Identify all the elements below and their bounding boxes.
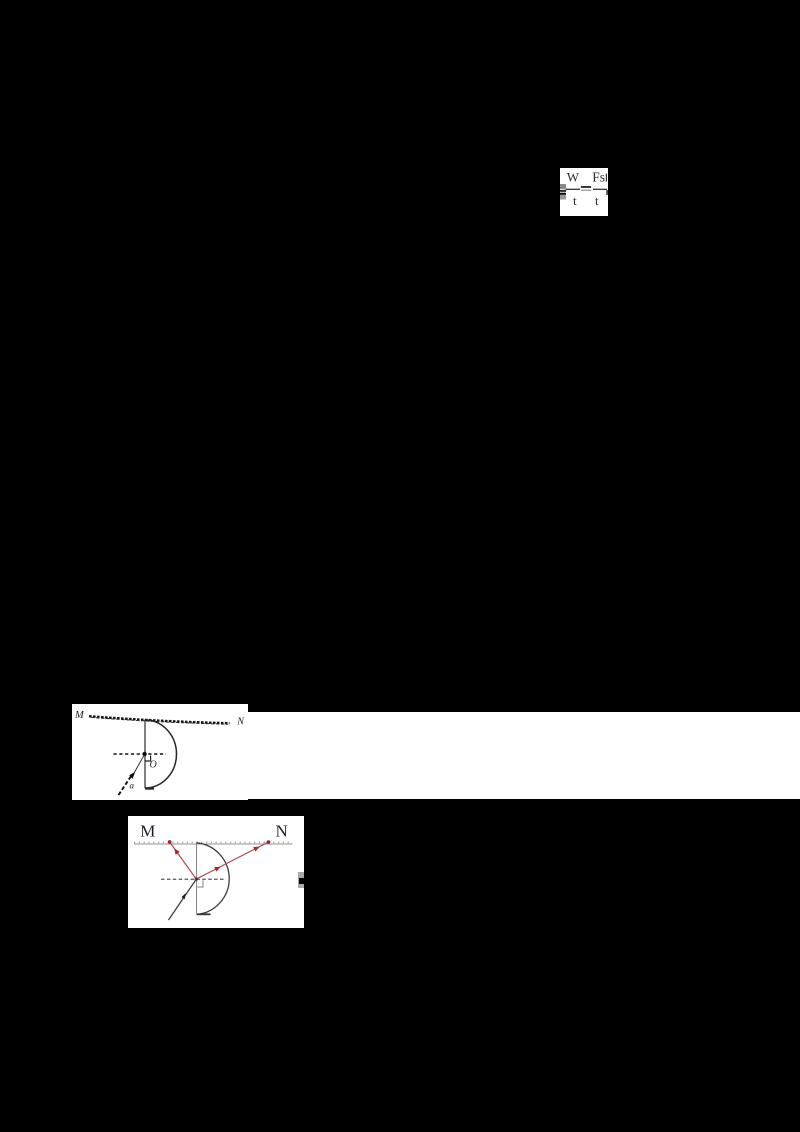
wire flat face vertical line d1 [144, 719, 146, 788]
node formula image box P=W/t=Fs/t [560, 168, 608, 216]
wire flat face vertical line d2 [196, 842, 198, 913]
wire arc bottom foot d1 [145, 787, 154, 789]
node left edge black bar upper [560, 190, 566, 192]
node red endpoint dot at N d2 [267, 840, 271, 844]
wire incident ray thin segment to O d1 [134, 754, 145, 774]
svg-text:N: N [236, 716, 245, 727]
svg-text:a: a [130, 780, 135, 790]
node incident ray arrowhead d1 [129, 771, 135, 778]
node cursor stroke after s [606, 174, 607, 182]
wire dashed normal line d1 [114, 753, 167, 755]
node point O dot d1 [142, 751, 146, 755]
node semicircular glass arc d2 [197, 842, 230, 914]
wire hatched surface MN d2 [134, 843, 293, 845]
svg-text:M: M [74, 710, 85, 721]
wire reflected red ray to M d2 [170, 841, 197, 878]
wire incident ray d2 [169, 879, 197, 920]
wire refracted red ray to N d2 [196, 842, 268, 879]
wire white band behind diagram 1 row [72, 712, 800, 799]
wire incident ray dashed shaft d1 [119, 774, 133, 794]
svg-text:N: N [276, 821, 288, 840]
node selection handle black square [299, 878, 304, 885]
node left edge gray block lower [560, 195, 566, 200]
wire right fraction bar [593, 188, 607, 190]
node right angle mark d2 [197, 880, 203, 887]
wire arc bottom foot d2 [197, 913, 211, 915]
node incident ray arrowhead d2 [182, 893, 186, 899]
wire hatched surface MN d1 [89, 716, 230, 723]
wire left fraction bar [566, 188, 581, 190]
node diagram 1 white box [72, 704, 248, 801]
node right angle mark d1 [145, 755, 150, 761]
node left edge black bar lower [560, 193, 566, 195]
node equals sign [581, 186, 591, 188]
node center junction dot d2 [195, 877, 198, 880]
node red arrowhead inner on ray to N d2 [214, 866, 220, 871]
node diagram 2 white box [128, 816, 304, 928]
svg-text:Fs: Fs [592, 170, 605, 185]
svg-text:W: W [567, 170, 580, 185]
svg-text:t: t [573, 193, 577, 208]
wire dashed normal line d2 [161, 878, 225, 880]
node red endpoint dot at M d2 [168, 840, 172, 844]
svg-text:O: O [150, 759, 157, 770]
node left edge gray block upper [560, 184, 566, 189]
svg-text:M: M [140, 821, 155, 840]
node selection handle gray rect [298, 872, 305, 889]
node semicircular glass arc d1 [145, 720, 177, 788]
node right edge tick [606, 190, 607, 195]
node red arrowhead outer on ray to N d2 [253, 846, 259, 851]
svg-text:t: t [595, 193, 599, 208]
node red arrowhead on ray to M d2 [174, 848, 180, 855]
